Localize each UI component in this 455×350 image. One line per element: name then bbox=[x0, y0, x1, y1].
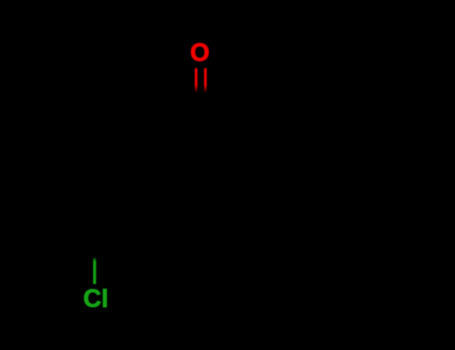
svg-text:O: O bbox=[190, 39, 209, 67]
bond C-Cl upper half (black) bbox=[93, 232, 96, 258]
C-Cl bond (green half) bbox=[93, 258, 96, 284]
carbonyl carbon node C bbox=[66, 91, 333, 258]
bond C to left ring ipso bbox=[153, 105, 200, 132]
wire: C=O lower half (black) bbox=[195, 91, 198, 105]
benzene ring right bbox=[217, 132, 333, 232]
bond C to right ring ipso bbox=[201, 105, 246, 132]
svg-text:Cl: Cl bbox=[83, 285, 108, 313]
benzene ring left bbox=[66, 132, 182, 232]
C=O double bond (red half) bbox=[195, 68, 207, 92]
